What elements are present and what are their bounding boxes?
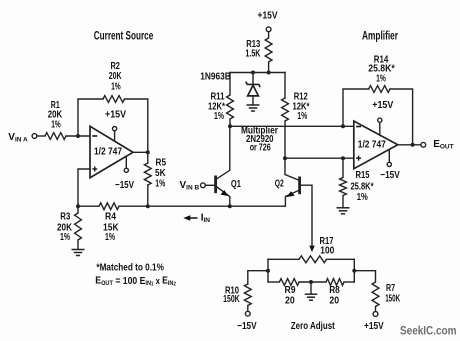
wire: top rail — [230, 72, 285, 74]
ground below zener — [247, 104, 260, 106]
svg-text:20: 20 — [329, 296, 339, 307]
svg-text:R7: R7 — [386, 283, 395, 294]
svg-text:5K: 5K — [155, 168, 166, 179]
zero adjust network: left node — [267, 259, 269, 282]
wire: op-amp U1 non-inverting input to R3/R4 node — [78, 169, 90, 206]
wire: line1 Q1 collector to amp inverting input — [230, 125, 354, 127]
svg-text:150K: 150K — [385, 294, 400, 305]
node: R3/R4 junction — [76, 204, 80, 208]
svg-text:1N963B: 1N963B — [200, 71, 231, 82]
svg-text:1%: 1% — [376, 74, 386, 85]
resistor R15 — [342, 158, 344, 177]
svg-text:R4: R4 — [105, 212, 116, 223]
op-amp U1 (1/2 747, current source) — [90, 126, 133, 177]
transistor Q2 — [298, 177, 301, 195]
resistor R8 (bottom branch right) — [326, 279, 344, 286]
node: feedback tap on line1 — [341, 124, 345, 128]
node: R13 bottom — [267, 71, 271, 75]
svg-text:+15V: +15V — [105, 110, 126, 121]
svg-text:R15: R15 — [356, 170, 370, 181]
wire: feedback loop left/top — [78, 99, 103, 136]
wire: line2 Q2 collector to amp non-inverting input — [285, 157, 354, 159]
terminal VinB — [201, 183, 206, 188]
svg-text:1%: 1% — [60, 232, 70, 243]
resistor R4 — [78, 205, 99, 207]
node: Q2 collector / line2 — [283, 156, 287, 160]
svg-text:1.5K: 1.5K — [245, 49, 261, 60]
current arrow Iin — [189, 217, 198, 219]
resistor R3 — [77, 206, 79, 213]
zero adjust network: right node — [353, 259, 355, 282]
svg-text:1%: 1% — [155, 179, 165, 190]
resistor R1 — [45, 133, 66, 140]
svg-text:1%: 1% — [297, 111, 307, 122]
wire: bottom branch middle — [299, 281, 326, 283]
svg-text:+15V: +15V — [258, 11, 278, 22]
resistor R13 — [268, 32, 270, 38]
op-amp U1 V+ pin — [114, 131, 116, 142]
resistor R9 (bottom branch left) — [268, 281, 279, 283]
op-amp U2 V- pin — [388, 149, 390, 162]
wire: right node to R7 — [354, 271, 375, 282]
transistor Q1 — [205, 184, 214, 186]
svg-text:R9: R9 — [285, 285, 296, 296]
resistor R17 (top branch) — [268, 258, 299, 260]
svg-text:R5: R5 — [156, 158, 167, 169]
resistor R5 — [147, 152, 149, 163]
svg-text:SeekIC.com: SeekIC.com — [400, 326, 457, 338]
node: Q1 collector / line1 — [228, 124, 232, 128]
node: R15 tap on line2 — [341, 156, 345, 160]
wire: U2 output — [398, 144, 421, 146]
svg-text:+15V: +15V — [372, 100, 393, 111]
wire: VinA lead — [32, 134, 37, 139]
svg-text:*Matched to 0.1%: *Matched to 0.1% — [96, 262, 164, 273]
svg-text:1/2 747: 1/2 747 — [94, 146, 122, 157]
wire: common emitter rail — [148, 205, 285, 207]
svg-text:−15V: −15V — [380, 170, 400, 181]
node: ground tap — [309, 280, 313, 284]
node: Q1 emitter junction — [228, 204, 232, 208]
wire: left node to R10 — [248, 271, 268, 284]
wire: op-amp U1 output — [133, 151, 148, 153]
wire: feedback loop right side down to output — [125, 99, 148, 152]
node: R5/R4 emitter-rail junction — [146, 204, 150, 208]
resistor R14 feedback — [343, 89, 369, 126]
resistor R10 — [244, 284, 251, 306]
svg-text:+15V: +15V — [364, 321, 384, 332]
ground below zero-adjust — [310, 282, 312, 294]
wire: Q2 base to zero-adjust wiper — [301, 185, 312, 247]
resistor R12 — [284, 73, 286, 99]
svg-text:Q1: Q1 — [231, 179, 241, 190]
svg-text:or 726: or 726 — [250, 143, 271, 154]
svg-text:20: 20 — [285, 296, 295, 307]
svg-text:1%: 1% — [111, 82, 121, 93]
svg-text:1%: 1% — [357, 192, 368, 203]
terminal Eout — [421, 142, 426, 147]
svg-text:100: 100 — [320, 246, 334, 257]
svg-text:1%: 1% — [214, 111, 224, 122]
svg-text:R3: R3 — [60, 212, 70, 223]
svg-text:1/2 747: 1/2 747 — [358, 139, 386, 150]
svg-text:Q2: Q2 — [275, 179, 284, 190]
svg-text:1%: 1% — [105, 232, 115, 243]
node: feedback junction — [76, 134, 80, 138]
op-amp U2 (1/2 747, amplifier) — [354, 121, 398, 169]
svg-text:−15V: −15V — [115, 180, 134, 191]
svg-text:1%: 1% — [51, 120, 61, 131]
svg-text:−15V: −15V — [237, 321, 257, 332]
svg-text:R8: R8 — [329, 285, 340, 296]
resistor R7 — [372, 282, 379, 307]
svg-text:Zero Adjust: Zero Adjust — [291, 321, 336, 332]
node: output/feedback junction — [411, 143, 415, 147]
svg-text:150K: 150K — [223, 294, 240, 305]
resistor R11 — [229, 73, 231, 96]
ground below R3 — [72, 249, 85, 251]
ground below R15 — [337, 207, 350, 209]
resistor R2 — [103, 96, 125, 103]
node: zener top — [251, 71, 255, 75]
node: U1 output junction — [146, 150, 150, 154]
svg-text:Amplifier: Amplifier — [362, 31, 398, 43]
wire: R1 to op-amp inverting input — [66, 135, 90, 137]
svg-text:Current Source: Current Source — [94, 30, 154, 42]
svg-text:25.8K*: 25.8K* — [351, 181, 374, 192]
svg-text:20K: 20K — [109, 71, 122, 82]
op-amp U1 V- pin — [125, 156, 127, 168]
op-amp U2 V+ pin — [379, 122, 381, 135]
